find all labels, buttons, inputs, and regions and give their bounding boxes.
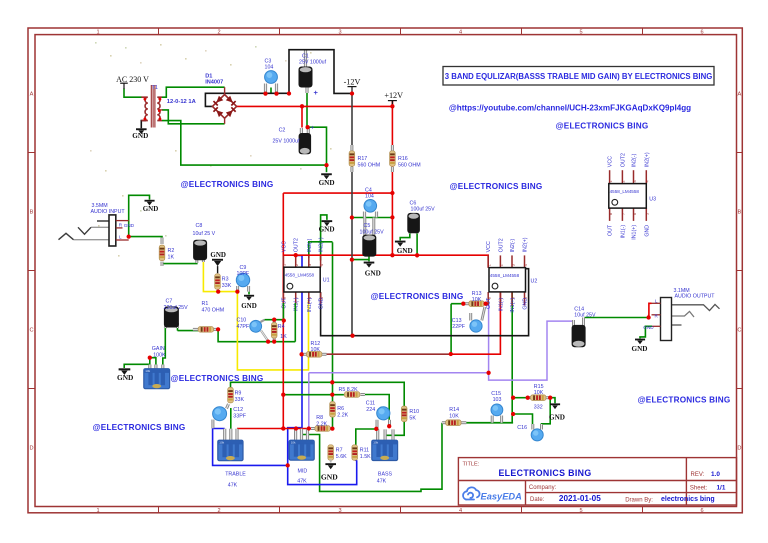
svg-text:10k: 10k <box>145 369 150 373</box>
svg-text:GND: GND <box>117 373 133 382</box>
svg-text:AC 230 V: AC 230 V <box>116 75 149 84</box>
svg-text:R8: R8 <box>316 415 323 421</box>
svg-text:5: 5 <box>579 508 582 514</box>
svg-text:100K: 100K <box>153 352 166 358</box>
svg-text:10uf 25 V: 10uf 25 V <box>193 231 216 237</box>
svg-text:T1: T1 <box>152 85 159 91</box>
svg-text:4: 4 <box>320 264 324 266</box>
svg-text:GND: GND <box>632 345 648 353</box>
svg-text:47PF: 47PF <box>237 324 250 330</box>
svg-text:U3: U3 <box>649 197 656 203</box>
svg-text:33PF: 33PF <box>233 413 246 419</box>
svg-text:4558_LM4558: 4558_LM4558 <box>285 273 315 278</box>
svg-text:1: 1 <box>96 508 99 514</box>
svg-text:1: 1 <box>488 264 492 266</box>
svg-text:4: 4 <box>524 264 528 266</box>
svg-text:R16: R16 <box>398 156 408 162</box>
svg-text:GND: GND <box>241 302 257 310</box>
svg-text:2021-01-05: 2021-01-05 <box>559 494 601 503</box>
svg-text:10k: 10k <box>291 441 296 445</box>
svg-text:C7: C7 <box>166 299 173 305</box>
svg-text:IN2(+): IN2(+) <box>644 152 650 167</box>
svg-text:C11: C11 <box>366 401 375 407</box>
svg-text:R11: R11 <box>360 448 369 454</box>
svg-text:OUT2: OUT2 <box>498 238 504 252</box>
svg-text:33K: 33K <box>222 283 232 289</box>
svg-text:C8: C8 <box>196 223 203 229</box>
svg-text:IN2(-): IN2(-) <box>632 153 638 167</box>
svg-text:R2: R2 <box>168 248 175 254</box>
svg-text:OUT: OUT <box>281 297 287 309</box>
svg-text:+: + <box>311 126 315 132</box>
svg-text:C2: C2 <box>279 127 286 133</box>
svg-text:3 BAND EQULIZAR(BASSS TRABLE M: 3 BAND EQULIZAR(BASSS TRABLE MID GAIN) B… <box>445 72 713 81</box>
svg-text:GND: GND <box>365 270 381 278</box>
svg-text:AUDIO INPUT: AUDIO INPUT <box>91 209 126 215</box>
svg-text:1K: 1K <box>168 254 175 260</box>
svg-text:GND: GND <box>321 472 338 481</box>
svg-text:8: 8 <box>609 213 613 215</box>
svg-text:1K: 1K <box>280 334 287 340</box>
svg-text:C1: C1 <box>302 53 309 59</box>
svg-text:R4: R4 <box>278 324 285 330</box>
svg-text:4558_LM4558: 4558_LM4558 <box>610 189 640 194</box>
svg-text:6: 6 <box>633 213 637 215</box>
svg-text:22PF: 22PF <box>452 324 465 330</box>
svg-text:IN2(+): IN2(+) <box>523 237 529 252</box>
svg-text:4: 4 <box>646 180 650 182</box>
svg-text:10k: 10k <box>219 441 224 445</box>
svg-text:R10: R10 <box>409 409 419 415</box>
svg-text:VCC: VCC <box>281 241 287 252</box>
svg-text:3: 3 <box>633 180 637 182</box>
svg-text:2: 2 <box>217 29 220 35</box>
svg-text:IN1(+): IN1(+) <box>510 298 516 313</box>
svg-text:@ELECTRONICS BING: @ELECTRONICS BING <box>171 374 264 383</box>
svg-text:L: L <box>655 299 658 304</box>
svg-text:REV:: REV: <box>691 472 705 478</box>
svg-text:C: C <box>29 328 33 334</box>
svg-text:IN1(-): IN1(-) <box>498 298 504 312</box>
svg-text:GND: GND <box>397 247 413 255</box>
svg-text:ELECTRONICS BING: ELECTRONICS BING <box>498 468 591 478</box>
svg-text:@ELECTRONICS BING: @ELECTRONICS BING <box>638 396 731 405</box>
svg-text:GND: GND <box>319 225 335 233</box>
svg-text:560 OHM: 560 OHM <box>398 162 421 168</box>
svg-text:OUT2: OUT2 <box>294 238 300 252</box>
svg-text:R13: R13 <box>472 291 482 297</box>
svg-text:OUT2: OUT2 <box>620 153 626 167</box>
svg-text:33K: 33K <box>235 397 245 403</box>
svg-text:2: 2 <box>622 180 626 182</box>
svg-text:@ELECTRONICS BING: @ELECTRONICS BING <box>181 180 274 189</box>
svg-text:332: 332 <box>534 405 543 411</box>
svg-text:10uf 25V: 10uf 25V <box>574 313 596 319</box>
svg-text:+12V: +12V <box>384 91 403 100</box>
svg-text:U1: U1 <box>323 278 330 284</box>
svg-text:10K: 10K <box>472 297 482 303</box>
svg-text:C16: C16 <box>517 425 527 431</box>
svg-text:AUDIO OUTPUT: AUDIO OUTPUT <box>675 294 716 300</box>
svg-text:3: 3 <box>511 264 515 266</box>
svg-text:2: 2 <box>295 264 299 266</box>
svg-text:R14: R14 <box>449 407 459 413</box>
svg-text:C: C <box>737 328 741 334</box>
svg-text:B: B <box>738 210 742 216</box>
svg-text:25V 1000uf: 25V 1000uf <box>272 139 300 145</box>
svg-text:1: 1 <box>96 29 99 35</box>
svg-text:IN1(+): IN1(+) <box>307 297 313 312</box>
svg-text:104: 104 <box>265 64 274 70</box>
svg-text:@ELECTRONICS BING: @ELECTRONICS BING <box>556 122 649 131</box>
svg-text:C5: C5 <box>364 223 371 229</box>
svg-text:25V 1000uf: 25V 1000uf <box>299 60 327 66</box>
svg-text:EasyEDA: EasyEDA <box>481 492 523 502</box>
svg-text:1: 1 <box>283 264 287 266</box>
svg-text:GND: GND <box>549 413 565 421</box>
svg-text:10K: 10K <box>311 347 321 353</box>
svg-text:470 OHM: 470 OHM <box>202 307 225 313</box>
svg-text:104: 104 <box>365 194 374 200</box>
svg-text:Sheet:: Sheet: <box>690 485 708 491</box>
svg-text:2.2K: 2.2K <box>337 412 348 418</box>
svg-text:47K: 47K <box>377 478 387 484</box>
svg-text:R6: R6 <box>337 406 344 412</box>
svg-text:6: 6 <box>700 29 703 35</box>
svg-text:C15: C15 <box>491 391 501 397</box>
svg-text:1: 1 <box>609 180 613 182</box>
svg-text:MID: MID <box>297 468 307 474</box>
svg-text:@ELECTRONICS BING: @ELECTRONICS BING <box>450 182 543 191</box>
svg-text:6: 6 <box>700 508 703 514</box>
svg-text:VCC: VCC <box>608 156 614 167</box>
svg-text:@ELECTRONICS BING: @ELECTRONICS BING <box>93 423 186 432</box>
svg-text:4558_LM4558: 4558_LM4558 <box>490 273 520 278</box>
svg-text:GND: GND <box>644 225 650 237</box>
svg-text:U2: U2 <box>531 278 538 284</box>
svg-text:TITLE:: TITLE: <box>463 461 480 467</box>
svg-text:2: 2 <box>217 508 220 514</box>
svg-text:GND: GND <box>210 251 226 259</box>
svg-text:R15: R15 <box>534 384 544 390</box>
svg-text:IN2(+): IN2(+) <box>319 237 325 252</box>
svg-text:560 OHM: 560 OHM <box>358 162 381 168</box>
svg-text:R5 8.2K: R5 8.2K <box>339 387 359 393</box>
svg-text:Date:: Date: <box>530 497 545 503</box>
svg-text:IN1(-): IN1(-) <box>620 225 626 239</box>
svg-text:R3: R3 <box>222 277 229 283</box>
svg-text:GND: GND <box>319 179 335 187</box>
svg-text:10K: 10K <box>534 390 544 396</box>
svg-text:2.2K: 2.2K <box>316 421 327 427</box>
svg-text:@https://youtube.com/channel/U: @https://youtube.com/channel/UCH-23xmFJK… <box>449 103 691 112</box>
svg-text:10K: 10K <box>449 413 459 419</box>
svg-text:10PF: 10PF <box>237 271 250 277</box>
svg-text:10k: 10k <box>373 441 378 445</box>
svg-text:220uf 25V: 220uf 25V <box>164 305 189 311</box>
svg-text:GND: GND <box>319 297 325 309</box>
svg-text:L: L <box>119 234 122 239</box>
svg-text:+: + <box>314 88 319 97</box>
svg-text:BASS: BASS <box>378 471 393 477</box>
svg-text:3.5MM: 3.5MM <box>92 203 108 209</box>
svg-text:IN4007: IN4007 <box>205 80 223 86</box>
svg-text:R1: R1 <box>202 301 209 307</box>
svg-text:4: 4 <box>459 508 462 514</box>
svg-text:D: D <box>29 446 33 452</box>
svg-text:OUT: OUT <box>608 224 614 236</box>
svg-text:5: 5 <box>579 29 582 35</box>
svg-text:5: 5 <box>646 213 650 215</box>
svg-text:100uf 25V: 100uf 25V <box>360 229 385 235</box>
svg-text:2: 2 <box>500 264 504 266</box>
svg-text:A: A <box>30 92 34 98</box>
svg-text:224: 224 <box>366 407 375 413</box>
svg-text:100uf 25V: 100uf 25V <box>411 206 436 212</box>
svg-text:103: 103 <box>493 397 502 403</box>
svg-text:IN1(+): IN1(+) <box>632 225 638 240</box>
svg-text:C10: C10 <box>237 318 247 324</box>
svg-text:GND: GND <box>643 325 654 330</box>
svg-text:7: 7 <box>622 213 626 215</box>
svg-text:1.5K: 1.5K <box>360 454 371 460</box>
svg-text:GND: GND <box>124 223 135 228</box>
svg-text:47K: 47K <box>228 482 238 488</box>
svg-text:A: A <box>738 92 742 98</box>
svg-text:5K: 5K <box>409 415 416 421</box>
svg-text:electronics bing: electronics bing <box>661 496 715 503</box>
svg-text:IN2(-): IN2(-) <box>510 239 516 253</box>
svg-text:Drawn By:: Drawn By: <box>625 497 653 503</box>
svg-text:R7: R7 <box>336 448 343 454</box>
svg-text:C12: C12 <box>233 407 243 413</box>
svg-text:Company:: Company: <box>529 485 557 491</box>
svg-text:TRABLE: TRABLE <box>225 472 246 478</box>
svg-text:R17: R17 <box>358 156 368 162</box>
svg-text:R9: R9 <box>235 391 242 397</box>
svg-text:@ELECTRONICS BING: @ELECTRONICS BING <box>371 292 464 301</box>
svg-text:-12V: -12V <box>344 77 361 86</box>
svg-text:5.6K: 5.6K <box>336 454 347 460</box>
svg-text:VCC: VCC <box>486 241 492 252</box>
svg-text:1/1: 1/1 <box>717 484 726 491</box>
svg-text:4: 4 <box>459 29 462 35</box>
svg-text:3: 3 <box>308 264 312 266</box>
svg-text:1.0: 1.0 <box>711 471 720 478</box>
svg-text:GND: GND <box>523 298 529 310</box>
svg-text:D: D <box>737 446 741 452</box>
svg-text:3: 3 <box>338 29 341 35</box>
svg-text:B: B <box>30 210 34 216</box>
svg-text:GND: GND <box>132 132 148 140</box>
svg-text:47K: 47K <box>297 478 307 484</box>
svg-text:IN2(-): IN2(-) <box>307 238 313 252</box>
svg-text:3: 3 <box>338 508 341 514</box>
svg-text:C14: C14 <box>574 306 584 312</box>
svg-text:GAIN: GAIN <box>152 346 165 352</box>
svg-text:12-0-12 1A: 12-0-12 1A <box>167 99 197 105</box>
svg-text:GND: GND <box>143 205 159 213</box>
